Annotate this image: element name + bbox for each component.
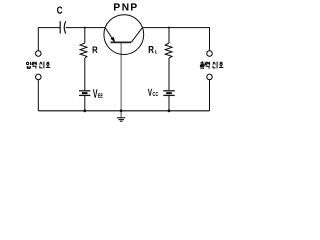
transistor Q1 base bar <box>111 41 132 43</box>
label C <box>57 7 62 14</box>
output label 출력 신호 <box>200 62 223 69</box>
node junction bottom rail / VCC <box>168 109 171 112</box>
node junction top rail / R branch <box>84 27 86 29</box>
wire resistor R to battery VEE <box>84 58 86 90</box>
output terminal lower <box>207 74 213 80</box>
wire RL branch from top rail down to resistor RL <box>168 28 170 43</box>
wire bottom rail <box>38 110 209 112</box>
transistor Q1 emitter arrow (PNP, pointing into base) <box>110 37 115 43</box>
resistor RL <box>165 43 172 58</box>
node junction bottom rail / VEE <box>83 109 86 112</box>
node junction bottom rail / ground <box>120 109 123 112</box>
transistor Q1 PNP: body circle <box>104 15 144 55</box>
wire battery VEE to bottom rail <box>84 96 86 111</box>
wire battery VCC to bottom rail <box>168 96 170 111</box>
wire transistor base lead down to ground node <box>120 43 122 111</box>
wire capacitor to transistor emitter <box>66 27 106 29</box>
input terminal upper <box>36 51 42 57</box>
wire input bottom terminal down to bottom rail <box>37 80 39 111</box>
label RL <box>149 46 158 53</box>
wire resistor RL to battery VCC <box>168 58 170 90</box>
wire R branch from top rail down to resistor R <box>84 28 86 43</box>
label VEE <box>93 89 98 97</box>
transistor Q1 collector diagonal <box>131 28 142 42</box>
wire input top: terminal up and right to capacitor <box>38 28 60 51</box>
wire transistor collector to output top corner <box>143 28 210 51</box>
wire output bottom terminal down to bottom rail <box>209 80 211 111</box>
battery VCC <box>163 91 174 96</box>
label R <box>93 47 98 53</box>
ground <box>117 111 125 121</box>
output terminal upper <box>207 51 213 57</box>
resistor R <box>80 43 87 58</box>
input label 입력 신호 <box>26 62 50 69</box>
capacitor C <box>60 21 65 33</box>
battery VEE <box>79 91 90 96</box>
label VCC <box>148 89 152 96</box>
transistor Q1 emitter diagonal <box>105 28 114 42</box>
label PNP <box>114 3 137 10</box>
input terminal lower <box>36 74 42 80</box>
node junction top rail / RL branch <box>168 27 170 29</box>
